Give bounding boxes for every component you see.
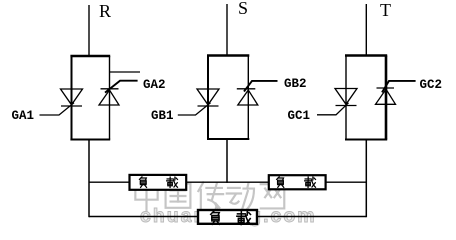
- wire: GC2 gate lead: [382, 81, 416, 93]
- wire: S drop to load row: [226, 139, 228, 183]
- svg-text:R: R: [99, 1, 111, 21]
- wire: GB1 gate lead: [178, 103, 211, 115]
- wire: R block left branch: [71, 56, 73, 140]
- wire: row1 load1 to load2 (through S): [187, 181, 268, 183]
- wire: R drop to loads: [88, 140, 90, 218]
- wire: stub right of R block: [110, 71, 140, 73]
- wire: S block top bar: [207, 54, 249, 56]
- wire: S phase feed: [226, 4, 228, 56]
- thyristor V2 (R right, conducts up): [99, 89, 119, 105]
- wire: S block right branch: [247, 56, 249, 140]
- svg-text:GA1: GA1: [12, 109, 35, 123]
- wire: GA1 gate lead: [40, 103, 75, 115]
- wire: T drop to loads: [365, 140, 367, 218]
- svg-text:T: T: [380, 0, 391, 20]
- thyristor V1 (R left, conducts down): [61, 89, 83, 106]
- wire: GA2 gate lead: [105, 81, 138, 93]
- wire: R block top bar: [70, 55, 110, 57]
- wire: GB2 gate lead: [244, 81, 278, 92]
- wire: T block right branch: [385, 56, 388, 140]
- watermark 中国传动网: [135, 182, 284, 210]
- svg-text:GB1: GB1: [151, 109, 174, 123]
- svg-text:GA2: GA2: [143, 78, 166, 92]
- svg-text:GB2: GB2: [284, 77, 307, 91]
- wire: R block right branch: [109, 56, 111, 140]
- svg-text:S: S: [238, 0, 248, 18]
- wire: T phase feed: [365, 4, 367, 56]
- wire: R phase feed: [88, 5, 90, 56]
- wire: GC1 gate lead: [317, 103, 349, 115]
- wire: S block bottom bar: [207, 138, 249, 140]
- wire: row1 load2 to T: [326, 181, 366, 183]
- wire: R block bottom bar: [70, 139, 110, 141]
- load box FZ3 负载: [198, 210, 257, 225]
- svg-text:GC2: GC2: [420, 78, 443, 92]
- wire: row2 load3 to T: [257, 216, 366, 218]
- wire: T block top bar: [345, 54, 387, 56]
- load box FZ1 负载: [130, 175, 187, 190]
- svg-text:GC1: GC1: [288, 109, 311, 123]
- load box FZ2 负载: [269, 175, 326, 189]
- thyristor V4 (S right, conducts up): [237, 89, 258, 105]
- thyristor V6 (T right, conducts up): [376, 88, 396, 104]
- thyristor V3 (S left, conducts down): [197, 89, 219, 106]
- wire: T block left branch: [345, 56, 347, 140]
- wire: S block left branch: [207, 56, 209, 140]
- thyristor V5 (T left, conducts down): [335, 89, 357, 106]
- wire: T block bottom bar: [345, 139, 387, 141]
- wire: row2 R to load3: [89, 216, 198, 218]
- wire: row1 R to load1: [89, 181, 129, 183]
